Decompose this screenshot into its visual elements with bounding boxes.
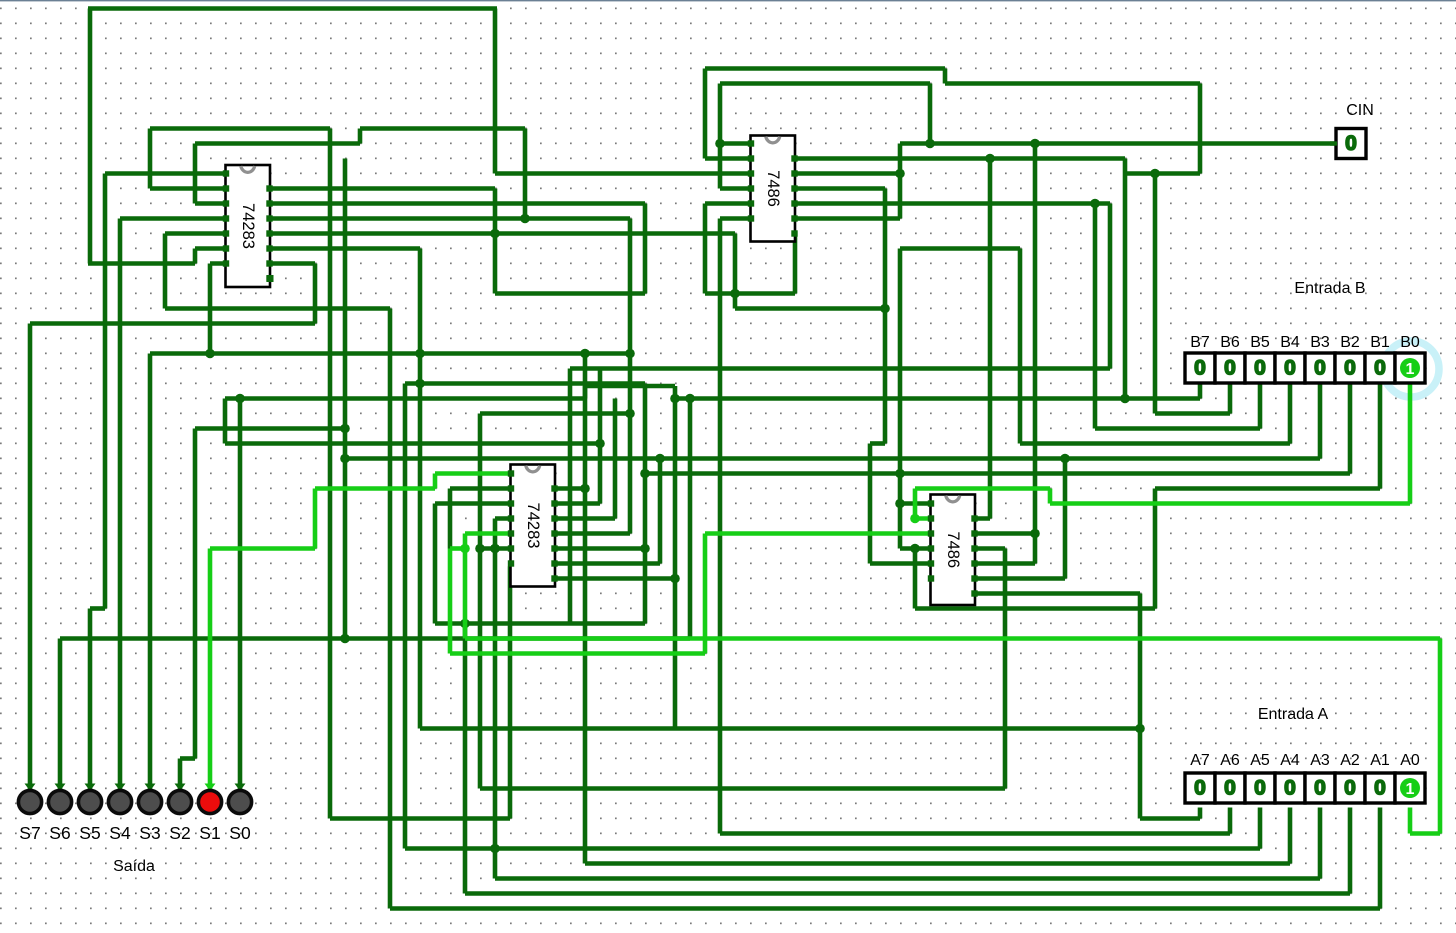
svg-text:A7: A7 — [1190, 752, 1210, 769]
svg-text:A5: A5 — [1250, 752, 1270, 769]
wire row27 mid — [480, 411, 630, 416]
svg-text:B2: B2 — [1340, 334, 1360, 351]
junction x480 — [475, 544, 485, 554]
svg-text:A1: A1 — [1370, 752, 1390, 769]
wire x645 upper — [643, 204, 648, 294]
wire S2 jog — [180, 756, 195, 761]
wire jog up — [358, 129, 363, 144]
svg-text:B1: B1 — [1370, 334, 1390, 351]
input pin A3 — [1305, 773, 1335, 803]
wire pin74283a-L17 — [210, 261, 227, 266]
wire row5 CIN — [720, 81, 930, 86]
pins U1 right — [266, 185, 272, 191]
wire pin7486a-R14 — [793, 216, 900, 221]
wire x165 — [163, 234, 168, 309]
wire A0 stub — [1408, 808, 1413, 834]
junction CIN-c — [895, 169, 905, 179]
wire row5 right — [945, 81, 1200, 86]
svg-text:0: 0 — [1344, 357, 1356, 380]
wire x465 dark — [463, 624, 468, 894]
wire A3 stub — [1318, 808, 1323, 879]
wire jog585 — [583, 386, 588, 399]
wire A7 stub — [1198, 808, 1203, 819]
svg-text:Entrada B: Entrada B — [1294, 280, 1365, 297]
wire B3 drop — [1318, 381, 1323, 459]
wire row13 long — [268, 201, 645, 206]
input pin A4 — [1275, 773, 1305, 803]
svg-text:S6: S6 — [49, 823, 70, 843]
wire S1 row32 — [315, 486, 435, 491]
wire pin7486a-L9 — [720, 141, 752, 146]
wire row41 left — [435, 621, 645, 626]
input pin B7 — [1185, 353, 1215, 383]
wire S0 riser — [238, 399, 243, 774]
wire x210 — [208, 264, 213, 354]
wire pin74283b-R34 — [555, 516, 615, 521]
wire A0 x1440 — [1438, 639, 1443, 834]
wire A1 stub — [1378, 808, 1383, 909]
svg-text:A6: A6 — [1220, 752, 1240, 769]
wire B0 jog — [1048, 489, 1053, 504]
LED S4 — [115, 784, 126, 792]
wire S6 row42 — [60, 636, 690, 641]
junction x600 — [595, 439, 605, 449]
wire A7 riser — [418, 249, 423, 729]
wire x720 long — [718, 219, 723, 834]
wire x630 — [628, 219, 633, 534]
wire A3 row58 — [495, 876, 1320, 881]
wire pin74283a-L6 — [195, 246, 227, 251]
junction row11 — [1150, 169, 1160, 179]
wire 1Y x705 — [703, 534, 708, 654]
wire x405 — [403, 384, 408, 849]
wire row54 left — [330, 816, 510, 821]
junction B7 — [1120, 394, 1130, 404]
wire S0 drop — [238, 774, 243, 790]
wire x1065 — [1063, 459, 1068, 579]
wire A5 stub — [1258, 808, 1263, 849]
wire pin74283a-L11 — [105, 171, 227, 176]
junction x420b — [415, 379, 425, 389]
wire row29 left — [225, 441, 600, 446]
wire B5 row28 — [1095, 426, 1260, 431]
wire x225 — [223, 399, 228, 444]
wire B1 row32 — [1155, 486, 1380, 491]
wire S5 riser — [103, 174, 108, 609]
wire row24 — [570, 366, 1110, 371]
wire x315 — [313, 264, 318, 324]
wire row12 from chip1 — [268, 186, 495, 191]
wire x900 CIN — [898, 144, 903, 219]
svg-text:A4: A4 — [1280, 752, 1300, 769]
svg-text:0: 0 — [1374, 357, 1386, 380]
junction CIN-a — [925, 139, 935, 149]
junction row14 — [520, 214, 530, 224]
svg-text:S1: S1 — [199, 823, 220, 843]
wire x495 upper — [493, 9, 498, 174]
input pin B5 — [1245, 353, 1275, 383]
LED S7 — [25, 784, 36, 792]
wire pin74283b-L35 — [465, 531, 512, 536]
input pin A0 — [1395, 773, 1425, 803]
svg-text:S7: S7 — [19, 823, 40, 843]
wire S1 jog — [433, 474, 438, 489]
svg-text:0: 0 — [1254, 357, 1266, 380]
wire row11 to 7486a — [495, 171, 752, 176]
input pin B0 — [1395, 353, 1425, 383]
svg-text:B4: B4 — [1280, 334, 1300, 351]
svg-text:S4: S4 — [109, 823, 131, 843]
svg-text:A2: A2 — [1340, 752, 1360, 769]
wire row10 right — [793, 156, 1125, 161]
wire S7 row21 — [30, 321, 315, 326]
svg-text:0: 0 — [1284, 777, 1296, 800]
wire row25 long — [405, 381, 645, 386]
wire row28 left — [195, 426, 345, 431]
wire S1 x315 — [313, 489, 318, 549]
wire x990 riser — [988, 159, 993, 519]
wire pin7486b-R35 — [973, 531, 1035, 536]
wire x90 left — [88, 9, 93, 264]
input pin B3 — [1305, 353, 1335, 383]
wire x915 — [913, 549, 918, 609]
junction x645c — [640, 544, 650, 554]
input pin B1 — [1365, 353, 1395, 383]
wire x330 long — [328, 129, 333, 819]
junction B5 — [1090, 199, 1100, 209]
wire S6 drop — [58, 639, 63, 790]
svg-text:0: 0 — [1345, 132, 1357, 155]
wire B5 drop — [1258, 381, 1263, 429]
LED S0 — [235, 784, 246, 792]
wire CIN row9 — [900, 141, 1336, 146]
wire row19 left — [495, 291, 645, 296]
junction x1140 — [1135, 724, 1145, 734]
svg-text:B3: B3 — [1310, 334, 1330, 351]
wire S3 drop — [148, 354, 153, 790]
pins U4 left — [928, 500, 934, 506]
junction x495 — [490, 544, 500, 554]
svg-text:A0: A0 — [1400, 752, 1420, 769]
svg-text:0: 0 — [1224, 777, 1236, 800]
junction x990 — [985, 154, 995, 164]
input pin A7 — [1185, 773, 1215, 803]
wire x150 short — [148, 129, 153, 189]
wire x885 — [883, 189, 888, 444]
svg-text:0: 0 — [1254, 777, 1266, 800]
wire row26 left — [225, 396, 585, 401]
wire pin7486b-R39 — [973, 591, 1140, 596]
wire x1200 — [1198, 84, 1203, 174]
pins U4 right — [971, 515, 977, 521]
wire x435 — [433, 504, 438, 624]
svg-text:B0: B0 — [1400, 334, 1420, 351]
wire S1 row31 — [435, 471, 512, 476]
input pin B2 — [1335, 353, 1365, 383]
pins U1 left — [223, 170, 229, 176]
junction bright — [460, 544, 470, 554]
wire pin7486a-L12 — [720, 186, 752, 191]
junction row30 — [1060, 454, 1070, 464]
svg-text:0: 0 — [1314, 357, 1326, 380]
wire pin7486a-L10 — [705, 156, 752, 161]
wire S2 riser — [193, 429, 198, 759]
wire x480 — [478, 414, 483, 789]
wire A7 row48 — [420, 726, 1140, 731]
wire A0 row42 — [465, 636, 1440, 641]
wire pin74283a-L12 — [150, 186, 227, 191]
junction x645b — [640, 469, 650, 479]
wire x870 — [868, 444, 873, 564]
pins U3 left — [748, 140, 754, 146]
wire x1035 CIN riser — [1033, 144, 1038, 564]
svg-text:B5: B5 — [1250, 334, 1270, 351]
junction CIN-e — [1030, 529, 1040, 539]
input pin CIN — [1336, 129, 1366, 159]
wire x450 dark — [448, 489, 453, 549]
wire row14 long — [268, 216, 630, 221]
wire pin74283b-R38 — [553, 576, 675, 581]
svg-text:0: 0 — [1344, 777, 1356, 800]
wire x390 — [388, 309, 393, 909]
LED S2 — [175, 784, 186, 792]
wire row23 long — [150, 351, 630, 356]
svg-text:0: 0 — [1194, 357, 1206, 380]
wire B2 row31 — [645, 471, 1350, 476]
wire A4 row57 — [585, 861, 1290, 866]
wire A5 row56 — [405, 846, 1260, 851]
wire B3 riser — [343, 159, 348, 639]
wire pin74283b-L34 — [495, 516, 512, 521]
svg-text:Entrada A: Entrada A — [1258, 706, 1329, 723]
junction x630b — [625, 409, 635, 419]
wire pin7486a-R15 drop — [793, 234, 798, 294]
svg-text:1: 1 — [1406, 361, 1415, 378]
wire A7 row54 — [1140, 816, 1200, 821]
wire x1155 lower — [1153, 489, 1158, 609]
wire jog945 — [943, 69, 948, 84]
wire x600 — [598, 369, 603, 504]
wire A6 row55 — [720, 831, 1230, 836]
wire S7 drop — [28, 324, 33, 790]
svg-text:7486: 7486 — [944, 531, 962, 568]
wire pin7486a-R11 — [793, 171, 898, 176]
svg-text:7486: 7486 — [764, 170, 782, 207]
wire row40 under chip — [915, 606, 1155, 611]
wire row29 jog — [870, 441, 885, 446]
junction x465 — [460, 619, 470, 629]
wire jog675 — [673, 386, 678, 399]
halo B0 selection — [1383, 341, 1439, 397]
junction S2x345 — [340, 424, 350, 434]
junction x420a — [415, 349, 425, 359]
wire S6 riser — [688, 399, 693, 639]
wire x720 CIN — [718, 84, 723, 189]
wire pin74283a-L13 — [195, 201, 227, 206]
wire pin7486b-L33 — [900, 501, 932, 506]
wire row26 right — [675, 396, 1200, 401]
wire x495 long — [493, 519, 498, 879]
junction x885 — [880, 304, 890, 314]
wire B0 drop — [1408, 381, 1413, 504]
wire pin74283b-R33 — [555, 501, 600, 506]
wire x525 — [523, 129, 528, 219]
wire row16 from chip1 — [268, 246, 420, 251]
svg-text:CIN: CIN — [1346, 102, 1374, 119]
wire A4 stub — [1288, 808, 1293, 864]
LED S1 — [205, 784, 216, 792]
LED S5 — [85, 784, 96, 792]
wire pin74283b-L32 — [450, 486, 512, 491]
wire row4 — [705, 66, 945, 71]
wire A2 row59 — [465, 891, 1350, 896]
input pin A6 — [1215, 773, 1245, 803]
wire pin7486b-L37 — [870, 561, 932, 566]
pins U2 right — [551, 485, 557, 491]
wire S5 drop — [88, 609, 93, 790]
wire x675 drop — [673, 399, 678, 729]
wire row12 right — [793, 186, 885, 191]
wire B4 riser — [1018, 249, 1023, 444]
junction B3c — [340, 454, 350, 464]
wire S4 drop — [118, 219, 123, 790]
wire bright jog — [450, 546, 465, 551]
wire row17 from chip1 — [268, 261, 315, 266]
top window edge — [0, 0, 1456, 1]
wire S5 jog — [90, 606, 105, 611]
wire pin7486b-R38 — [973, 576, 1065, 581]
svg-text:1: 1 — [1406, 781, 1415, 798]
svg-text:A3: A3 — [1310, 752, 1330, 769]
svg-text:0: 0 — [1374, 777, 1386, 800]
junction x900 — [895, 469, 905, 479]
wire x195 jog — [193, 249, 198, 264]
wire A0 riser — [463, 534, 468, 639]
wire B3 row30 — [345, 456, 1320, 461]
wire B6 drop — [1228, 381, 1233, 414]
junction row56 — [490, 844, 500, 854]
wire S1 row36 — [210, 546, 315, 551]
pins U3 right — [791, 155, 797, 161]
svg-text:S2: S2 — [169, 823, 190, 843]
svg-text:S3: S3 — [139, 823, 160, 843]
junction S0 — [235, 394, 245, 404]
LED S6 — [55, 784, 66, 792]
wire x1110 — [1108, 204, 1113, 369]
wire B4 drop — [1288, 381, 1293, 444]
junction row23 — [205, 349, 215, 359]
wire row20 right — [735, 306, 885, 311]
wire pin7486b-R34 — [973, 516, 990, 521]
wire pin74283b-R35w — [555, 531, 630, 536]
wire x735 — [733, 234, 738, 309]
wire pin74283b-L33w — [435, 501, 512, 506]
pin nub unconnected U1 — [267, 275, 274, 282]
wire pin74283b-R37 — [555, 561, 660, 566]
wire x585 — [583, 354, 588, 864]
junction x675 — [670, 394, 680, 404]
junction b1 — [490, 544, 500, 554]
wire pin74283b-R36s — [555, 546, 645, 551]
wire x705 — [703, 69, 708, 159]
svg-text:0: 0 — [1284, 357, 1296, 380]
wire top row0 — [88, 6, 497, 11]
wire pin7486b-L34 — [915, 516, 932, 521]
wire pin7486b-L36 — [900, 546, 932, 551]
junction CIN-b — [1030, 139, 1040, 149]
svg-text:74283: 74283 — [239, 203, 257, 249]
wire B7 drop — [1198, 381, 1203, 399]
wire row17 left — [88, 261, 195, 266]
wire x1140 — [1138, 594, 1143, 819]
chip U1 74283 high adder — [226, 165, 271, 287]
wire x450 bright — [448, 549, 453, 654]
wire row52 — [480, 786, 1005, 791]
wire x570 — [568, 369, 573, 624]
chip U3 7486 xor high — [751, 136, 796, 242]
svg-text:S0: S0 — [229, 823, 251, 843]
wire B6 riser — [1153, 174, 1158, 414]
junction x660 — [655, 454, 665, 464]
wire row15 long — [268, 231, 735, 236]
wire pin7486b-R37 — [973, 561, 1035, 566]
svg-text:0: 0 — [1314, 777, 1326, 800]
wire B4 row29 — [1020, 441, 1290, 446]
svg-text:B6: B6 — [1220, 334, 1240, 351]
wire S2 drop — [178, 759, 183, 790]
wire x1005 — [1003, 549, 1008, 789]
svg-text:S5: S5 — [79, 823, 100, 843]
wire pin7486a-L14 — [720, 216, 752, 221]
junction x915 — [910, 544, 920, 554]
pins U2 left — [508, 470, 514, 476]
wire B7 riser — [1123, 159, 1128, 399]
junction x585b — [580, 484, 590, 494]
wire pin7486b-R36 — [973, 546, 1005, 551]
wire pin7486a-L13 — [705, 201, 752, 206]
svg-text:0: 0 — [1224, 357, 1236, 380]
svg-text:74283: 74283 — [524, 503, 542, 549]
input pin B6 — [1215, 353, 1245, 383]
chip U2 74283 low adder — [511, 465, 556, 587]
input pin A1 — [1365, 773, 1395, 803]
svg-text:0: 0 — [1194, 777, 1206, 800]
wire x195 upper — [193, 144, 198, 204]
wire A0 row55 — [1410, 831, 1440, 836]
junction x675b — [670, 574, 680, 584]
wire x900 lower — [898, 249, 903, 549]
wire row26 jog — [585, 384, 675, 389]
wire x930 CIN — [928, 84, 933, 144]
input pin A2 — [1335, 773, 1365, 803]
wire pin74283a-L14w — [120, 216, 227, 221]
wire x495 mid — [493, 189, 498, 294]
wire B1 drop — [1378, 381, 1383, 489]
wire 1Y row35 — [705, 531, 932, 536]
wire pin74283b-L36 — [480, 546, 512, 551]
input pin B4 — [1275, 353, 1305, 383]
wire pin74283b-R32 — [555, 486, 585, 491]
wire row11 right — [1125, 171, 1200, 176]
wire B6 row27 — [1155, 411, 1230, 416]
junction CIN-d — [715, 139, 725, 149]
junction x900b — [895, 499, 905, 509]
wire B0 row33 — [1050, 501, 1410, 506]
input pin A5 — [1245, 773, 1275, 803]
wire pin74283a-L15 — [165, 231, 227, 236]
junction S6 — [685, 394, 695, 404]
wire row13 right — [793, 201, 1110, 206]
